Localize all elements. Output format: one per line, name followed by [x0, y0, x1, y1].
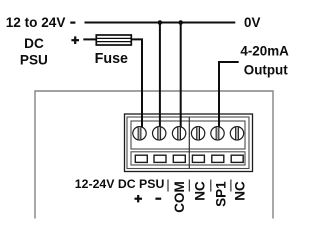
svg-text:12 to 24V: 12 to 24V	[6, 15, 66, 30]
svg-text:4-20mA: 4-20mA	[240, 44, 289, 59]
terminal screw T1	[133, 127, 146, 140]
terminal screw T5	[211, 127, 224, 140]
junction dot node at wire to terminal 3	[178, 20, 183, 25]
terminal block middle rect	[127, 117, 249, 169]
terminal screw T6	[230, 127, 243, 140]
svg-text:PSU: PSU	[20, 53, 48, 68]
svg-text:12-24V DC PSU: 12-24V DC PSU	[75, 177, 165, 191]
separator bar 3	[210, 180, 212, 192]
plus sign at supply wire	[71, 36, 79, 44]
svg-text:Fuse: Fuse	[95, 51, 128, 67]
cage clamp square S4	[192, 155, 204, 162]
cage clamp square S6	[231, 155, 243, 162]
svg-text:DC: DC	[24, 36, 44, 51]
terminal block outer rect	[125, 114, 253, 172]
wire fuse to terminal 1	[131, 39, 142, 127]
terminal screw T2	[153, 127, 166, 140]
terminal screw T4	[191, 127, 204, 140]
separator bar 2	[188, 180, 190, 192]
terminal block squares row frame	[131, 152, 245, 165]
terminal block circles row frame	[131, 121, 245, 149]
wire + supply to fuse	[83, 38, 96, 40]
enclosure outline	[35, 91, 273, 219]
svg-text:0V: 0V	[244, 15, 260, 30]
wire 0V down to terminal 3 (COM)	[180, 23, 182, 128]
svg-text:Output: Output	[244, 62, 288, 77]
cage clamp square S1	[135, 155, 147, 162]
terminal block center divider	[188, 117, 190, 169]
minus sign under terminal 2	[155, 198, 161, 200]
svg-text:NC: NC	[192, 181, 207, 201]
svg-text:NC: NC	[233, 181, 248, 201]
minus sign at 0V wire	[70, 22, 75, 24]
svg-text:COM: COM	[172, 181, 187, 213]
separator bar 1	[167, 180, 169, 192]
wire 0V down to terminal 2	[159, 23, 161, 128]
fuse F1 body	[96, 35, 131, 45]
cage clamp square S3	[173, 155, 185, 162]
plus sign under terminal 1	[135, 195, 143, 202]
cage clamp square S5	[212, 155, 224, 162]
wire 0V horizontal	[85, 22, 236, 24]
terminal screw T3	[172, 127, 185, 140]
wire 4-20mA output to terminal 5	[219, 62, 239, 127]
separator bar 4	[230, 180, 232, 192]
junction dot node at wire to terminal 2	[158, 20, 163, 25]
cage clamp square S2	[154, 155, 166, 162]
svg-text:SP1: SP1	[214, 181, 229, 207]
